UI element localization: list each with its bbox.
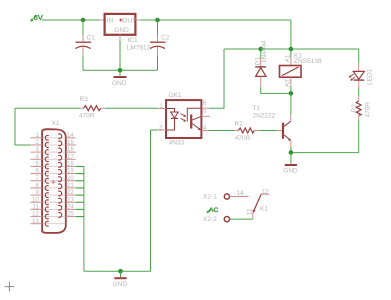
- svg-text:4N33: 4N33: [169, 139, 185, 146]
- X1 pin 10: [31, 197, 66, 204]
- X1 pin 1: [31, 133, 66, 140]
- X1 pin 2: [31, 140, 66, 147]
- X1 pin 14: [58, 133, 76, 139]
- capacitor ground rail: [83, 69, 158, 71]
- X1 pin 3: [31, 147, 66, 154]
- svg-text:C1: C1: [87, 35, 96, 42]
- diode D1: [255, 40, 291, 94]
- X1 pin 25: [58, 212, 76, 218]
- X1 pin 16: [58, 147, 76, 153]
- junction dot D1 top: [258, 47, 263, 52]
- X1 pin 7: [31, 176, 66, 183]
- connector X2-2: [203, 216, 229, 223]
- svg-text:LED1: LED1: [367, 68, 374, 85]
- X1 pin 15: [58, 140, 76, 146]
- svg-text:X2-2: X2-2: [203, 216, 217, 223]
- OK1 internal LED: [166, 109, 178, 131]
- capacitor C2: [150, 20, 170, 70]
- ground symbol under IC1: [112, 70, 127, 87]
- svg-text:13: 13: [32, 219, 39, 225]
- junction dot C1 top: [81, 18, 86, 23]
- origin cross: [5, 282, 15, 292]
- svg-text:ZNS5138: ZNS5138: [294, 58, 322, 65]
- 12V rail: [224, 48, 359, 50]
- junction dot rail GND: [118, 68, 123, 73]
- OK1 emission arrows: [181, 114, 187, 122]
- capacitor C1: [76, 20, 96, 70]
- wire X2-2 to contact: [230, 218, 253, 220]
- svg-text:20: 20: [67, 176, 74, 182]
- svg-text:GND: GND: [283, 168, 298, 175]
- X1 pin 21: [58, 183, 76, 189]
- svg-text:11: 11: [246, 208, 253, 215]
- X1 pin 12: [31, 212, 66, 219]
- connector X1: [42, 120, 66, 233]
- svg-text:5: 5: [203, 107, 207, 114]
- svg-text:OK1: OK1: [169, 92, 182, 99]
- OK1 phototransistor: [187, 108, 201, 130]
- svg-text:23: 23: [67, 197, 74, 203]
- svg-text:OUT: OUT: [122, 18, 136, 25]
- junction dot emitter node: [289, 150, 294, 155]
- LED1: [349, 49, 374, 96]
- svg-text:14: 14: [67, 133, 74, 139]
- wire X1 pin 22 to ground bus: [76, 194, 84, 196]
- wire X1 ground bus: [83, 166, 85, 271]
- svg-text:15: 15: [67, 140, 74, 146]
- svg-text:A1: A1: [284, 54, 291, 62]
- supply label 6V: [30, 13, 43, 22]
- IC1 GND pin wire: [119, 35, 121, 41]
- relay coil K1: [280, 49, 322, 93]
- resistor R3: [15, 96, 158, 119]
- X1 pin 18: [58, 162, 76, 168]
- svg-text:GND: GND: [113, 281, 128, 288]
- X1 pin 20: [58, 176, 76, 182]
- ground symbol under T1: [283, 153, 298, 175]
- svg-text:6V: 6V: [34, 13, 43, 22]
- net label AC: [206, 207, 218, 214]
- connector X2-1: [203, 194, 229, 201]
- optocoupler OK1: [166, 92, 201, 146]
- pin stub IC1 IN: [100, 19, 105, 21]
- wire 6V to IC1 IN: [42, 19, 104, 21]
- wire R3 to X1 pin2: [15, 108, 31, 145]
- ground symbol bottom: [113, 271, 128, 288]
- svg-text:1N4004: 1N4004: [261, 40, 268, 63]
- X1 pin 24: [58, 205, 76, 211]
- svg-text:A2: A2: [284, 79, 291, 87]
- svg-text:6: 6: [203, 100, 207, 107]
- wire X1 pin 20 to ground bus: [76, 180, 84, 182]
- resistor R2: [351, 96, 372, 152]
- svg-text:LM7812: LM7812: [127, 45, 151, 52]
- wire X1 pin 24 to ground bus: [76, 208, 84, 210]
- svg-text:16: 16: [67, 147, 74, 153]
- svg-text:2N2222: 2N2222: [253, 113, 276, 120]
- svg-text:12: 12: [32, 212, 39, 218]
- resistor R1: [209, 120, 278, 141]
- svg-text:470R: 470R: [79, 112, 95, 119]
- wire K1 to T1 collector: [290, 93, 292, 114]
- svg-text:24: 24: [67, 205, 74, 211]
- junction dot bottom ground: [118, 269, 123, 274]
- X1 pin 6: [31, 169, 66, 176]
- X1 pin 11: [31, 205, 66, 212]
- svg-text:K1: K1: [260, 205, 268, 212]
- svg-text:470R: 470R: [235, 135, 251, 142]
- wire X1 pin 21 to ground bus: [76, 187, 84, 189]
- wire OUT to corner: [140, 19, 291, 21]
- wire rail to OK1 pin6: [209, 49, 224, 108]
- wire OUT corner down to rail: [290, 20, 292, 49]
- svg-text:19: 19: [67, 169, 74, 175]
- wire OK1 pin2 down: [151, 130, 159, 271]
- wire R2 bottom to emitter node: [291, 152, 359, 154]
- svg-text:AC: AC: [209, 207, 219, 214]
- svg-text:17: 17: [67, 154, 74, 160]
- wire X1 pin 25 to ground bus: [76, 216, 84, 218]
- X1 pin 22: [58, 190, 76, 196]
- svg-text:IC1: IC1: [128, 37, 139, 44]
- IC1 regulator box: [105, 14, 151, 52]
- wire X1 pin 23 to ground bus: [76, 201, 84, 203]
- svg-text:T1: T1: [253, 105, 261, 112]
- svg-text:R1: R1: [235, 120, 244, 127]
- wire X1 pin 18 to ground bus: [76, 165, 84, 167]
- pin stub IC1 OUT: [135, 19, 140, 21]
- svg-text:25: 25: [67, 212, 74, 218]
- svg-text:11: 11: [33, 205, 40, 211]
- junction dot K1 bottom: [289, 91, 294, 96]
- X1 pin 8: [31, 183, 66, 190]
- svg-text:R2: R2: [351, 104, 358, 113]
- svg-text:18: 18: [67, 162, 74, 168]
- svg-text:470R: 470R: [364, 102, 371, 118]
- wire bottom ground rail: [84, 270, 151, 272]
- X1 pin 17: [58, 154, 76, 160]
- wire X1 pin 19 to ground bus: [76, 173, 84, 175]
- relay contact K1 arm: [253, 195, 269, 214]
- svg-text:22: 22: [67, 190, 74, 196]
- svg-text:GND: GND: [112, 80, 127, 87]
- X1 pin 19: [58, 169, 76, 175]
- X1 pin 23: [58, 197, 76, 203]
- X1 pin 13: [31, 219, 66, 226]
- junction dot K1 top: [289, 47, 294, 52]
- svg-text:GND: GND: [114, 27, 129, 34]
- svg-text:21: 21: [67, 183, 74, 189]
- svg-text:X1: X1: [52, 120, 60, 127]
- svg-text:14: 14: [237, 190, 245, 197]
- transistor T1: [253, 105, 292, 152]
- svg-text:10: 10: [32, 197, 39, 203]
- svg-text:C2: C2: [161, 35, 170, 42]
- junction dot C2 top: [155, 18, 160, 23]
- svg-text:X2-1: X2-1: [203, 194, 217, 201]
- svg-text:IN: IN: [107, 18, 114, 25]
- X1 pin 4: [31, 154, 66, 161]
- X1 pin 9: [31, 190, 66, 197]
- svg-text:R3: R3: [80, 96, 89, 103]
- X1 pin 5: [31, 162, 66, 169]
